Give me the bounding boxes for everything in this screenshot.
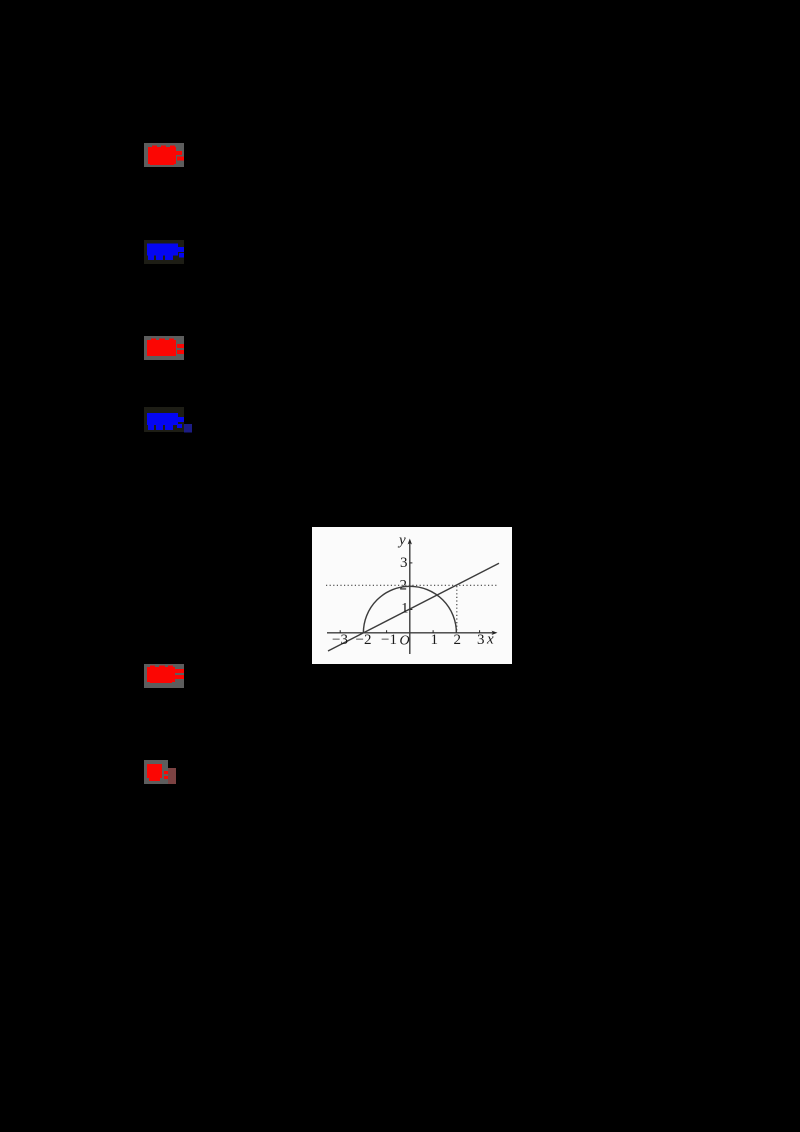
label box 2 (blue text on dark) — [144, 240, 186, 266]
x ticks — [340, 630, 479, 633]
y numbers — [400, 555, 409, 617]
dotted horizontal line y=2 — [326, 584, 498, 586]
svg-text:3: 3 — [400, 555, 408, 571]
x numbers — [332, 632, 485, 648]
maroon square after label 6 — [168, 768, 176, 784]
semicircle radius 2 — [363, 586, 456, 633]
label box 3 (red text on gray) — [144, 336, 186, 362]
svg-text:1: 1 — [431, 632, 439, 648]
label box 6 (small red char on gray, with maroon square) — [144, 760, 178, 786]
x-axis — [327, 632, 495, 634]
svg-text:y: y — [397, 533, 406, 549]
label box 4 (blue text on dark, with small navy square) — [144, 407, 194, 435]
svg-text:3: 3 — [477, 632, 485, 648]
dotted vertical line x=2 — [456, 586, 458, 633]
y-axis arrow — [408, 539, 412, 545]
svg-text:x: x — [486, 632, 494, 648]
svg-text:1: 1 — [401, 601, 409, 617]
panel background — [312, 527, 512, 664]
line y=x/2+1 — [328, 563, 499, 651]
svg-text:2: 2 — [454, 632, 462, 648]
svg-text:−2: −2 — [356, 632, 372, 648]
label box 1 (red text on gray) — [144, 143, 186, 169]
label box 5 (red text on gray) — [144, 664, 186, 690]
svg-text:−3: −3 — [332, 632, 348, 648]
x-axis arrow — [492, 631, 498, 635]
svg-text:O: O — [400, 634, 410, 649]
y-axis — [409, 541, 411, 654]
svg-text:−1: −1 — [381, 632, 397, 648]
navy square after label 4 — [184, 424, 192, 433]
y ticks — [410, 563, 413, 610]
svg-text:2: 2 — [400, 578, 408, 594]
white graph panel — [312, 527, 512, 664]
